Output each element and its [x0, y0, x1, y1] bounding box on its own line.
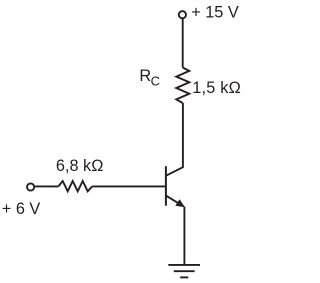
wire top stem	[182, 19, 184, 68]
wire collector stem	[166, 103, 183, 176]
svg-text:+ 15 V: + 15 V	[191, 4, 239, 22]
emitter arrowhead	[177, 201, 184, 207]
wire from terminal to resistor	[34, 185, 58, 187]
ground	[168, 265, 200, 278]
terminal +15V	[179, 11, 186, 18]
resistor RC 1,5 kOhm	[176, 68, 189, 104]
svg-text:1,5 kΩ: 1,5 kΩ	[192, 79, 241, 97]
svg-text:6,8 kΩ: 6,8 kΩ	[56, 157, 103, 175]
terminal +6V	[27, 183, 34, 190]
resistor 6,8 kOhm	[58, 181, 92, 191]
svg-text:+ 6 V: + 6 V	[2, 200, 41, 218]
emitter wire with arrow	[166, 196, 179, 204]
wire emitter stem	[183, 207, 185, 265]
transistor Q1 base bar	[165, 166, 167, 206]
wire base	[92, 185, 165, 187]
